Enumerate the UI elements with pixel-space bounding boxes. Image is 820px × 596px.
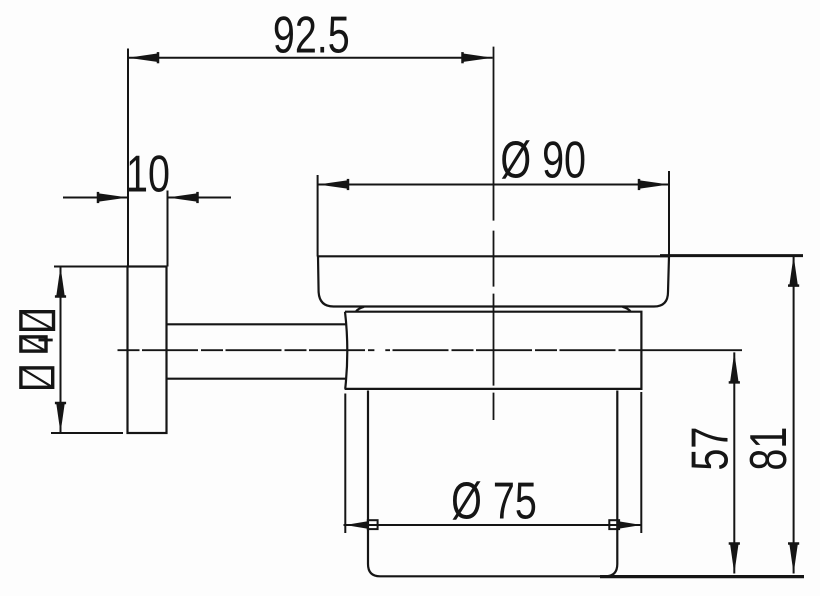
horizontal centerline (arm axis) <box>118 349 621 351</box>
dimension 81 arrow down <box>788 544 799 574</box>
bottom extension line (57 / 81 dims) thick <box>600 575 804 578</box>
dimension O90 arrow left <box>318 179 348 190</box>
svg-text:Ø 75: Ø 75 <box>451 471 537 530</box>
dimension O75 arrow left <box>345 521 367 529</box>
vertical centerline <box>493 47 495 420</box>
svg-text:81: 81 <box>739 427 798 471</box>
svg-text:Ø 90: Ø 90 <box>500 130 586 189</box>
centerline gap patch <box>374 348 385 352</box>
svg-text:10: 10 <box>126 144 170 203</box>
glass neck cusp left <box>356 307 364 312</box>
dimension 10 arrow (points right, tip at x=128) <box>98 192 128 203</box>
dimension O90 line <box>318 184 669 186</box>
cup (glass body) <box>368 391 617 577</box>
arm bottom edge <box>167 378 347 380</box>
dimension O75 extension left <box>344 394 346 534</box>
glass rim (dish) outline <box>318 256 669 306</box>
dimension O90 extension left <box>317 175 319 257</box>
tofu glyph box 1 (rotated label 40, char 1) <box>21 312 54 330</box>
extension line left (92.5 / 10 dim) <box>127 49 129 267</box>
dimension 10 arrow (points left, tip at x=167.5) <box>168 192 198 203</box>
dimension O90 extension right <box>668 171 670 255</box>
holder ring (band) <box>345 312 642 389</box>
wall plate bottom extension line (40 dim, bottom) <box>51 432 123 434</box>
top right extension (81 dim) from dish top <box>660 254 803 257</box>
dimension 92.5 arrow right <box>463 52 493 63</box>
57 top extension (centerline continued solid) <box>620 349 742 351</box>
glass neck cusp right <box>623 307 631 312</box>
dimension O90 arrow right <box>639 179 669 190</box>
dimension 81 line <box>793 256 795 574</box>
dimension 92.5 arrow left <box>128 52 158 63</box>
wall plate top extension line (40 dim, top) <box>54 266 128 268</box>
svg-text:92.5: 92.5 <box>273 5 350 64</box>
dimension 40 arrow up <box>55 267 66 297</box>
dimension 10 line left part <box>63 197 128 199</box>
dimension O75 extension right <box>640 392 642 533</box>
dimension 40 arrow down <box>55 403 66 433</box>
dimension 57 arrow up <box>729 352 740 382</box>
dimension 92.5 line <box>128 57 493 59</box>
arm top edge <box>167 323 347 325</box>
dimension O75 tail box left <box>368 520 378 529</box>
tofu glyph box 2 (rotated label 40, char 2) <box>21 337 53 351</box>
dimension O75 arrow right <box>618 521 640 529</box>
svg-text:57: 57 <box>680 427 739 471</box>
extension line x=167.5 (10 dim right) <box>167 191 169 267</box>
dimension O75 line <box>344 524 643 526</box>
dimension 57 arrow down <box>729 544 740 574</box>
tofu glyph box 3 (rotated label 40, char 3) <box>21 368 53 387</box>
dimension 81 arrow up <box>788 256 799 286</box>
wall plate <box>128 267 167 434</box>
dimension 10 line right part <box>168 197 232 199</box>
dimension 57 line <box>733 352 735 573</box>
dimension O75 tail box right <box>609 520 619 529</box>
dimension 40 line <box>60 267 62 434</box>
